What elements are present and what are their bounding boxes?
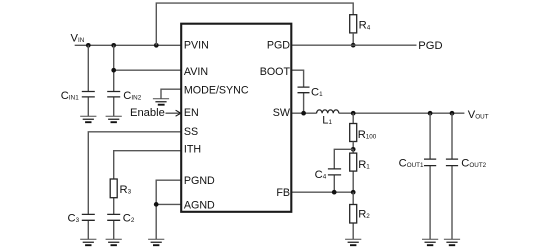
svg-text:SW: SW: [273, 107, 291, 119]
wire COUT1: [429, 113, 431, 239]
svg-text:PGD: PGD: [418, 40, 442, 52]
svg-text:FB: FB: [276, 187, 290, 199]
wire SW: [291, 112, 316, 114]
ground CIN2: [106, 116, 122, 122]
resistor R2: [350, 205, 357, 224]
wire ITH to R3: [114, 151, 181, 240]
svg-text:ITH: ITH: [184, 143, 201, 155]
ground COUT1: [422, 239, 438, 245]
node VOUT-COUT2: [450, 111, 455, 116]
node VOUT-COUT1: [428, 111, 433, 116]
svg-text:EN: EN: [184, 107, 199, 119]
node PGND-AGND: [154, 202, 159, 207]
node VIN-CIN2: [111, 43, 116, 48]
wire SW to VOUT: [339, 112, 465, 114]
svg-text:SS: SS: [184, 126, 198, 138]
svg-text:PVIN: PVIN: [184, 40, 209, 52]
capacitor COUT2: [446, 159, 458, 166]
svg-text:Enable: Enable: [130, 107, 165, 119]
node SW-R100: [351, 111, 356, 116]
svg-text:BOOT: BOOT: [260, 66, 291, 78]
node R100-R1-C4: [351, 147, 356, 152]
capacitor COUT1: [424, 159, 436, 166]
node SW-C1: [301, 111, 306, 116]
svg-text:MODE/SYNC: MODE/SYNC: [184, 84, 249, 96]
arrowhead EN: [176, 110, 181, 116]
ground COUT2: [444, 239, 460, 245]
wire AGND: [156, 204, 181, 239]
ground C3: [80, 239, 96, 245]
ground MODE/SYNC: [153, 99, 169, 105]
wire FB: [291, 191, 353, 193]
node FB-R1-R2: [351, 190, 356, 195]
inductor L1: [317, 110, 339, 113]
resistor R4: [350, 15, 357, 33]
wire PGND: [156, 180, 181, 204]
capacitor C3: [82, 214, 95, 220]
wire PGD: [291, 44, 416, 46]
ground R2: [345, 239, 361, 245]
svg-text:AVIN: AVIN: [184, 66, 208, 78]
node FB-C4: [332, 190, 337, 195]
wire COUT2: [451, 113, 453, 239]
node AVIN-CIN2: [111, 68, 116, 73]
ground AGND: [148, 239, 164, 245]
wire BOOT to C1: [291, 70, 303, 113]
resistor R1: [350, 153, 357, 171]
wire MODE/SYNC to ground: [161, 89, 181, 99]
resistor R3: [110, 179, 117, 198]
wire R2: [352, 192, 354, 239]
wire top to R4: [156, 3, 353, 45]
node VIN-CIN1: [86, 43, 91, 48]
capacitor C4: [328, 169, 341, 175]
wire R4 to PGD: [352, 33, 354, 45]
svg-text:PGD: PGD: [267, 40, 290, 52]
ground C2: [106, 239, 122, 245]
capacitor C2: [107, 214, 120, 220]
capacitor C1: [298, 87, 310, 93]
ground CIN1: [80, 116, 96, 122]
wire EN arrow: [166, 112, 180, 114]
IC U1 box: [181, 24, 291, 212]
wire R100 to R1: [352, 142, 354, 150]
svg-text:AGND: AGND: [184, 200, 215, 212]
wire C4 branch: [334, 149, 353, 192]
wire SS to C3: [88, 132, 181, 239]
resistor R100: [350, 124, 357, 142]
node PGD-R4: [351, 43, 356, 48]
capacitor CIN2: [107, 92, 120, 97]
node VIN-topwire: [154, 43, 159, 48]
wire AVIN: [114, 69, 181, 71]
wire CIN1 stub: [87, 45, 89, 116]
wire CIN2 stub: [113, 45, 115, 116]
wire R1: [352, 149, 354, 192]
wire SW to R100: [352, 113, 354, 123]
svg-text:PGND: PGND: [184, 175, 215, 187]
capacitor CIN1: [82, 92, 95, 97]
wire VIN input: [75, 44, 181, 46]
